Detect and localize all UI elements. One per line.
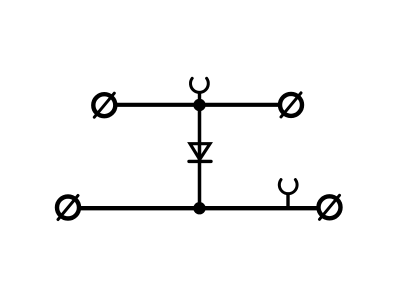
wire: top rail (105, 103, 292, 107)
screw terminal clamp, bottom right (319, 195, 341, 219)
wire: vertical branch through diode (198, 105, 202, 208)
test socket, bottom level (279, 180, 297, 207)
node: top junction (193, 99, 205, 111)
screw terminal clamp, top left (93, 93, 115, 117)
screw terminal clamp, top right (280, 93, 302, 117)
diode (189, 144, 211, 162)
node: bottom junction (193, 202, 205, 214)
screw terminal clamp, bottom left (57, 196, 79, 220)
wire: bottom rail (68, 206, 330, 210)
test socket, top level (191, 78, 209, 104)
